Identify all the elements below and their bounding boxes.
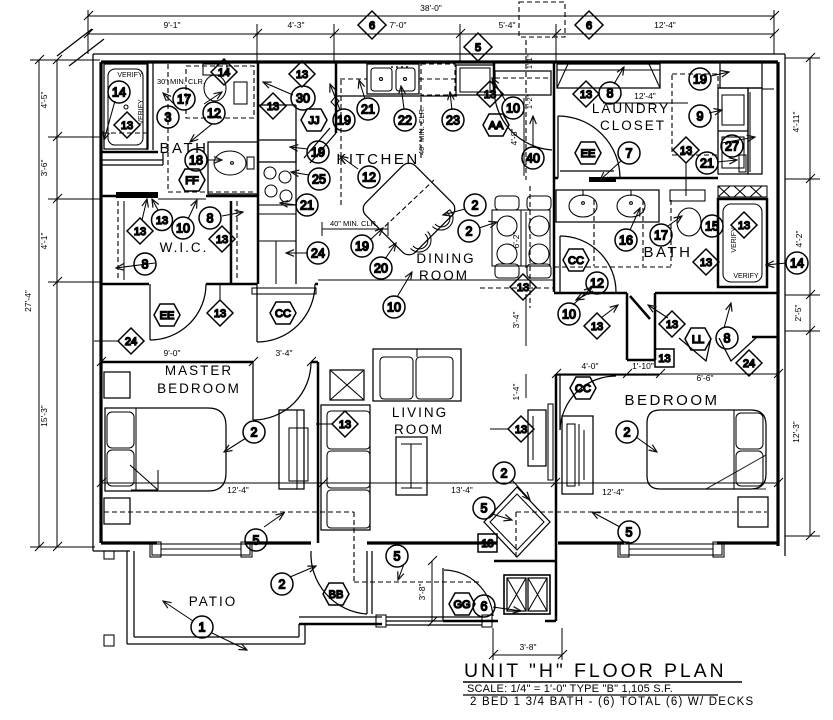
dimension row: overall 38'-0" top bbox=[84, 3, 779, 20]
svg-text:W.I.C.: W.I.C. bbox=[160, 240, 209, 255]
svg-text:13: 13 bbox=[591, 321, 603, 333]
diamond 24 hall bbox=[94, 328, 144, 354]
svg-text:13: 13 bbox=[134, 226, 146, 238]
svg-text:13: 13 bbox=[738, 220, 750, 232]
svg-text:30" MIN. CLR.: 30" MIN. CLR. bbox=[157, 77, 205, 86]
diamond 24 closet bbox=[736, 350, 762, 376]
window bedroom 2 (bottom wall) bbox=[618, 542, 724, 557]
svg-text:13: 13 bbox=[339, 419, 351, 431]
bedroom2 nightstand bbox=[738, 497, 768, 527]
living loveseat bbox=[373, 349, 461, 401]
diamond 13 wic a bbox=[127, 199, 153, 244]
entry vestibule interior wall top of closet bbox=[494, 560, 556, 563]
callout circle 20 bbox=[370, 257, 392, 279]
diamond 13 living b bbox=[490, 416, 534, 442]
callout circle 19 kitchen sink bbox=[333, 109, 355, 131]
svg-text:3'-8": 3'-8" bbox=[417, 584, 427, 601]
bath1 clearance dashed bbox=[103, 64, 256, 192]
svg-text:12'-3": 12'-3" bbox=[791, 421, 801, 443]
svg-text:13: 13 bbox=[666, 319, 678, 331]
bath2 toilet nook walls bbox=[627, 293, 655, 360]
leader arrows bbox=[104, 67, 786, 650]
svg-text:14: 14 bbox=[112, 86, 126, 100]
bath2 vanity bbox=[556, 190, 659, 222]
callout circle 1 patio bbox=[191, 616, 213, 638]
svg-text:15'-3": 15'-3" bbox=[39, 405, 49, 427]
interior dim bedroom2 top 4'-0" 1'-10" 6'-6" bbox=[552, 361, 783, 383]
right dimension line: 4'-11" / 4'-2" / 2'-5" / 12'-3" bbox=[785, 53, 820, 540]
dining/laundry wall bbox=[553, 62, 556, 292]
diamond 13 bedroom2 hall bbox=[584, 313, 610, 339]
exterior wall bottom segments bbox=[93, 543, 778, 551]
svg-text:CC: CC bbox=[275, 308, 291, 320]
door: master bedroom bbox=[253, 362, 311, 420]
svg-text:UNIT "H" FLOOR PLAN: UNIT "H" FLOOR PLAN bbox=[464, 660, 727, 682]
svg-text:EE: EE bbox=[160, 310, 175, 322]
keynote diamond 6 (top right) bbox=[575, 11, 603, 39]
svg-text:JJ: JJ bbox=[309, 115, 320, 127]
entry coat closet bbox=[504, 575, 550, 614]
callout circle 22 bbox=[394, 109, 416, 131]
svg-text:4'-0": 4'-0" bbox=[582, 361, 599, 371]
svg-text:2: 2 bbox=[251, 426, 258, 440]
diamond 13 dining top bbox=[477, 81, 503, 107]
washer dryer stack bbox=[718, 62, 774, 174]
callout circle 5 bedroom2 bbox=[618, 521, 640, 543]
callout circle 19 laundry bbox=[689, 68, 711, 90]
svg-text:13: 13 bbox=[680, 145, 692, 157]
bath2 clearance dashed bbox=[554, 200, 671, 267]
svg-text:2 BED 1 3/4 BATH - (6) TOTAL (: 2 BED 1 3/4 BATH - (6) TOTAL (6) W/ DECK… bbox=[470, 696, 754, 708]
callout circle 7 hall bbox=[600, 142, 640, 180]
dining north pantry wall bbox=[493, 62, 496, 95]
kitchen counter edge bbox=[336, 95, 457, 97]
diamond 13 wic b bbox=[152, 199, 173, 231]
svg-text:14: 14 bbox=[790, 257, 804, 271]
callout circle 9 bbox=[689, 105, 711, 127]
svg-text:12: 12 bbox=[590, 277, 604, 291]
callout circle 27 bbox=[721, 135, 743, 157]
exterior wall top (inner thick) bbox=[101, 60, 778, 63]
diamond 13 living bbox=[316, 411, 358, 437]
svg-text:13: 13 bbox=[121, 120, 133, 132]
patio/entry lower wall with slider bbox=[299, 615, 498, 627]
svg-text:10: 10 bbox=[176, 222, 190, 236]
svg-text:13: 13 bbox=[481, 538, 493, 550]
callout circle 8 closet LL bbox=[716, 303, 738, 349]
hall dashed bbox=[526, 40, 530, 308]
laundry shelf bbox=[557, 64, 660, 88]
svg-text:24: 24 bbox=[125, 336, 137, 348]
wall end cap notch bbox=[331, 97, 339, 106]
svg-text:4'-5": 4'-5" bbox=[39, 92, 49, 109]
svg-text:3: 3 bbox=[165, 111, 172, 125]
svg-text:BEDROOM: BEDROOM bbox=[157, 381, 241, 396]
callout circle 10 pantry bbox=[502, 97, 524, 119]
bath1 sink bbox=[214, 151, 254, 175]
diamond 13 kitchen a bbox=[260, 93, 286, 119]
hall dim 4'-8" bbox=[509, 98, 524, 176]
svg-text:CLOSET: CLOSET bbox=[600, 118, 666, 133]
svg-text:38'-0": 38'-0" bbox=[420, 3, 442, 13]
living coffee table bbox=[396, 437, 427, 495]
svg-text:21: 21 bbox=[700, 157, 714, 171]
laundry door sill bbox=[560, 171, 616, 182]
dining dim 6'-2" bbox=[511, 212, 526, 268]
svg-text:13: 13 bbox=[517, 282, 529, 294]
dashed box top center bbox=[519, 2, 565, 37]
hall dim 3'-4" bbox=[511, 294, 526, 346]
diamond 13 laundry bbox=[573, 81, 599, 107]
svg-text:24: 24 bbox=[311, 247, 325, 261]
svg-text:4'-1": 4'-1" bbox=[39, 233, 49, 250]
door: dining AA opening arc bbox=[494, 90, 552, 150]
svg-text:16: 16 bbox=[619, 234, 633, 248]
callout circle 2 living bbox=[493, 462, 515, 484]
svg-text:10: 10 bbox=[562, 308, 576, 322]
hexagon FF bbox=[179, 169, 205, 191]
svg-text:24: 24 bbox=[743, 358, 755, 370]
exterior wall right bbox=[776, 62, 779, 546]
svg-text:13: 13 bbox=[580, 89, 592, 101]
entry vestibule bottom wall right of door bbox=[545, 620, 556, 623]
svg-text:2: 2 bbox=[624, 426, 631, 440]
callout circle 21 laundry bbox=[696, 152, 718, 174]
svg-text:2'-5": 2'-5" bbox=[793, 305, 803, 322]
svg-text:CC: CC bbox=[568, 255, 584, 267]
dining chairs at rotated table bbox=[411, 210, 454, 253]
svg-text:23: 23 bbox=[446, 114, 460, 128]
svg-text:13: 13 bbox=[296, 69, 308, 81]
diamond 13 laundry b bbox=[673, 137, 699, 196]
svg-text:4'-8": 4'-8" bbox=[509, 129, 519, 146]
master bed bbox=[105, 408, 226, 491]
svg-text:GG: GG bbox=[453, 599, 470, 611]
svg-text:17: 17 bbox=[177, 93, 191, 107]
bath1 / WIC wall bbox=[101, 192, 258, 199]
callout circle 12 kitchen bbox=[358, 166, 380, 188]
callout circle 19 hood bbox=[307, 141, 329, 163]
svg-text:12: 12 bbox=[207, 107, 221, 121]
callout circle 8 wic2 bbox=[134, 253, 156, 275]
small dims 1'-1" 1'-2" bbox=[527, 55, 534, 109]
hexagon JJ bbox=[301, 109, 327, 131]
entry dim 3'-8" vertical bbox=[417, 556, 437, 626]
svg-text:21: 21 bbox=[300, 199, 314, 213]
callout circle 17 bbox=[173, 88, 195, 110]
svg-text:MASTER: MASTER bbox=[165, 363, 233, 378]
bedroom2 north wall stub bbox=[556, 374, 659, 376]
svg-text:20: 20 bbox=[374, 262, 388, 276]
corner break mark top-left bbox=[57, 29, 104, 66]
dimension row 2 top: 9'-1" / 4'-3" / 7'-0" / 5'-4" / 12'-4" bbox=[84, 10, 779, 62]
svg-text:13: 13 bbox=[156, 215, 168, 227]
svg-text:15: 15 bbox=[705, 220, 719, 234]
living media bench bbox=[528, 404, 553, 480]
svg-text:7: 7 bbox=[626, 147, 633, 161]
svg-text:10: 10 bbox=[387, 301, 401, 315]
svg-text:PATIO: PATIO bbox=[189, 594, 238, 609]
svg-text:22: 22 bbox=[398, 114, 412, 128]
diamond 13 tub1 bbox=[114, 112, 140, 138]
tub room right wall (bath1) bbox=[147, 62, 153, 150]
diamond 14 bath1 bbox=[211, 59, 237, 85]
hexagon CC hall1 bbox=[270, 302, 296, 324]
svg-text:3'-6": 3'-6" bbox=[39, 160, 49, 177]
diamond 13 dining floor bbox=[510, 274, 536, 300]
room label MASTER BEDROOM bbox=[157, 363, 241, 396]
svg-text:AA: AA bbox=[489, 120, 504, 132]
patio right step wall bbox=[299, 624, 305, 644]
callout circle 40 bbox=[522, 147, 544, 169]
keynote diamond 6 (top left) bbox=[358, 11, 386, 39]
diamond 13 bath2 tub bbox=[731, 212, 757, 238]
bedroom2 dresser bbox=[562, 416, 593, 494]
callout circle 23 bbox=[442, 109, 464, 131]
svg-text:12: 12 bbox=[362, 171, 376, 185]
svg-text:3'-8": 3'-8" bbox=[520, 642, 537, 652]
svg-text:17: 17 bbox=[654, 229, 668, 243]
svg-text:7'-0": 7'-0" bbox=[390, 20, 407, 30]
svg-text:6: 6 bbox=[481, 600, 488, 614]
WIC south wall / hall top bbox=[101, 283, 318, 286]
living sofa bbox=[321, 405, 370, 530]
callout circle 15 bbox=[701, 215, 723, 237]
callout circle 2 dining a bbox=[464, 194, 486, 216]
svg-text:EE: EE bbox=[581, 148, 596, 160]
callout circle 2 master bbox=[243, 421, 265, 443]
diamond 13 bath2 bbox=[693, 249, 719, 275]
svg-text:6: 6 bbox=[369, 20, 375, 32]
callout circle 10 bath1 bbox=[172, 217, 194, 239]
callout circle 30 bbox=[291, 86, 315, 110]
door: front entry GG bbox=[443, 568, 494, 621]
svg-text:9'-1": 9'-1" bbox=[164, 20, 181, 30]
svg-text:12'-4": 12'-4" bbox=[634, 91, 656, 101]
svg-text:13: 13 bbox=[658, 353, 670, 365]
door: laundry EE bbox=[558, 116, 620, 178]
LL closet bifold doors bbox=[655, 337, 778, 361]
svg-text:8: 8 bbox=[607, 87, 614, 101]
svg-text:13: 13 bbox=[216, 234, 228, 246]
laundry clearance dashed bbox=[672, 74, 718, 155]
kitchen counter end wall bbox=[335, 62, 338, 133]
bath2 mirror box bbox=[670, 190, 705, 201]
callout circle 21 kitchen bbox=[357, 98, 379, 120]
keynote diamond 5 (top center) bbox=[464, 33, 492, 61]
entry dim 3'-8" horizontal bbox=[489, 628, 567, 660]
svg-text:9: 9 bbox=[697, 110, 704, 124]
svg-text:30: 30 bbox=[296, 92, 310, 106]
callout circle 3 bbox=[157, 106, 179, 128]
callout circle 2 dining b bbox=[458, 220, 480, 242]
verify tub1 bbox=[117, 72, 145, 125]
svg-text:5: 5 bbox=[253, 534, 260, 548]
svg-text:27'-4": 27'-4" bbox=[23, 290, 33, 312]
bath2 tub bbox=[718, 199, 767, 287]
svg-text:27: 27 bbox=[725, 140, 739, 154]
roof line dashed left bbox=[104, 511, 354, 513]
dining table 2 with four chairs bbox=[492, 196, 551, 278]
hexagon LL bbox=[685, 328, 711, 350]
svg-text:12'-4": 12'-4" bbox=[227, 485, 249, 495]
svg-text:1'-2": 1'-2" bbox=[527, 95, 534, 109]
kitchen west wall bbox=[257, 62, 260, 284]
hexagon BB bbox=[323, 583, 349, 605]
square 13 nook bbox=[655, 349, 674, 367]
svg-text:1: 1 bbox=[199, 621, 206, 635]
diamond 13 hall bbox=[207, 285, 233, 326]
callout circle 12 bath1 bbox=[203, 102, 225, 124]
svg-text:1'-4": 1'-4" bbox=[511, 384, 521, 401]
svg-text:BB: BB bbox=[329, 589, 344, 601]
room label DINING ROOM bbox=[416, 251, 475, 283]
svg-text:5: 5 bbox=[394, 550, 401, 564]
bath2 south wall bbox=[554, 292, 627, 295]
note 40" min clr horizontal bbox=[322, 219, 388, 236]
callout circle 5 entry bbox=[386, 545, 408, 567]
callout circle 8 wic bbox=[199, 207, 221, 229]
svg-text:19: 19 bbox=[355, 240, 369, 254]
svg-text:13: 13 bbox=[484, 89, 496, 101]
diamond 13 kitchen b bbox=[289, 61, 315, 87]
bath1 toilet bbox=[203, 64, 227, 101]
svg-text:19: 19 bbox=[337, 114, 351, 128]
callout circle 19 dining bbox=[351, 235, 373, 257]
entry vestibule right wall bbox=[555, 543, 558, 621]
door: patio BB bbox=[311, 551, 372, 614]
svg-text:1'-1": 1'-1" bbox=[527, 55, 534, 69]
hexagon CC bedroom2 bbox=[570, 377, 596, 399]
svg-text:4'-3": 4'-3" bbox=[288, 20, 305, 30]
left dimension line inner: 4'-5" / 3'-6" / 4'-1" / 15'-3" bbox=[30, 55, 100, 551]
callout circle 10 dining bbox=[383, 296, 405, 318]
svg-text:10: 10 bbox=[506, 102, 520, 116]
angled cased opening JJ bbox=[304, 128, 336, 163]
kitchen sink bbox=[367, 64, 419, 94]
door: bedroom2 CC bbox=[560, 374, 616, 430]
svg-text:25: 25 bbox=[312, 173, 326, 187]
dining rotated table bbox=[360, 160, 459, 259]
svg-text:40: 40 bbox=[526, 152, 540, 166]
laundry south wall bbox=[554, 178, 774, 180]
callout circle 2 patio bbox=[271, 573, 293, 595]
title: UNIT H FLOOR PLAN bbox=[463, 660, 754, 708]
verify tub2 bbox=[731, 227, 759, 280]
svg-text:13: 13 bbox=[515, 424, 527, 436]
callout circle 12 hall2 bbox=[586, 272, 608, 294]
floor line dining/living bbox=[318, 279, 554, 281]
dishwasher dashed bbox=[421, 64, 455, 95]
svg-text:ROOM: ROOM bbox=[394, 422, 444, 437]
svg-text:13: 13 bbox=[700, 257, 712, 269]
svg-text:5: 5 bbox=[481, 502, 488, 516]
hexagon AA bbox=[483, 114, 509, 136]
svg-text:DINING: DINING bbox=[416, 251, 475, 266]
svg-text:6'-6": 6'-6" bbox=[697, 373, 714, 383]
range hood bbox=[258, 140, 296, 162]
interior dim line master 9'-0" 3'-4" bbox=[97, 348, 318, 366]
hexagon EE hall2 bbox=[575, 142, 601, 164]
diamond 13 wic c bbox=[209, 226, 235, 252]
exterior wall outer faces bbox=[93, 54, 785, 556]
svg-text:40" MIN. CLR.: 40" MIN. CLR. bbox=[417, 107, 426, 155]
svg-text:18: 18 bbox=[189, 154, 203, 168]
svg-text:14: 14 bbox=[218, 67, 230, 79]
callout circle 8 laundry bbox=[599, 82, 621, 104]
bath1 tub bbox=[104, 64, 148, 149]
callout circle 6 entry bbox=[473, 595, 495, 617]
exterior wall left bbox=[99, 62, 102, 543]
bath1 wall cabinet bbox=[234, 82, 247, 104]
hall dim 1'-4" bbox=[511, 374, 526, 400]
room label LAUNDRY CLOSET bbox=[592, 101, 670, 133]
svg-text:SCALE: 1/4" = 1'-0" TYPE: SCALE: 1/4" = 1'-0" TYPE "B" 1,105 S.F. bbox=[467, 683, 673, 695]
svg-text:6'-2": 6'-2" bbox=[511, 232, 521, 249]
svg-text:9'-0": 9'-0" bbox=[164, 348, 181, 358]
callout circle 13 nook bbox=[659, 314, 681, 336]
callout circle 23 fridge bbox=[444, 112, 466, 134]
svg-text:13: 13 bbox=[214, 308, 226, 320]
svg-text:19: 19 bbox=[693, 73, 707, 87]
hexagon EE hall1 bbox=[154, 304, 180, 326]
kitchen base cab lines bbox=[258, 214, 296, 284]
svg-text:2: 2 bbox=[472, 199, 479, 213]
svg-text:KITCHEN: KITCHEN bbox=[336, 151, 419, 168]
svg-text:LIVING: LIVING bbox=[392, 405, 448, 420]
callout circle 17 bath2 bbox=[650, 224, 672, 246]
callout circle 10 hall2 bbox=[558, 303, 580, 325]
svg-text:ROOM: ROOM bbox=[419, 268, 469, 283]
svg-text:1'-10": 1'-10" bbox=[632, 361, 654, 371]
callout circle 5 master bbox=[245, 529, 267, 551]
door: bath2 CC bbox=[560, 236, 616, 292]
svg-text:VERIFY: VERIFY bbox=[117, 72, 143, 79]
bedroom2 west wall bbox=[555, 374, 558, 543]
hexagon GG bbox=[449, 593, 475, 615]
range burners bbox=[258, 162, 296, 205]
svg-text:13'-4": 13'-4" bbox=[451, 485, 473, 495]
svg-text:CC: CC bbox=[575, 383, 591, 395]
master nightstand lower bbox=[104, 498, 130, 524]
svg-text:5: 5 bbox=[626, 526, 633, 540]
fridge bbox=[456, 65, 494, 95]
master bedroom north wall bbox=[101, 361, 318, 364]
svg-text:3'-4": 3'-4" bbox=[511, 312, 521, 329]
svg-text:LL: LL bbox=[692, 334, 704, 346]
callout circle 21 range bbox=[296, 194, 318, 216]
svg-text:VERIFY: VERIFY bbox=[733, 273, 759, 280]
svg-text:12'-4": 12'-4" bbox=[602, 487, 624, 497]
bath1 vanity block bbox=[208, 142, 258, 194]
patio left wall bbox=[127, 551, 134, 644]
WIC shelf dashes bbox=[118, 201, 237, 283]
room label LIVING ROOM bbox=[392, 405, 448, 437]
entry tile rotated square bbox=[484, 487, 550, 557]
svg-text:VERIFY: VERIFY bbox=[138, 99, 145, 125]
square 13 entry bbox=[478, 534, 497, 552]
roof line dashed right bbox=[516, 511, 767, 513]
callout circle 5 living bbox=[473, 497, 495, 519]
svg-text:2: 2 bbox=[279, 578, 286, 592]
svg-text:6: 6 bbox=[586, 20, 592, 32]
bath2 toilet bbox=[677, 208, 701, 236]
roof dashes at entry bbox=[354, 512, 516, 582]
svg-text:4'-2": 4'-2" bbox=[794, 231, 804, 248]
master nightstand upper bbox=[104, 372, 130, 398]
dining clearance dashed bbox=[480, 287, 554, 289]
window master bedroom (bottom wall) bbox=[150, 542, 252, 557]
